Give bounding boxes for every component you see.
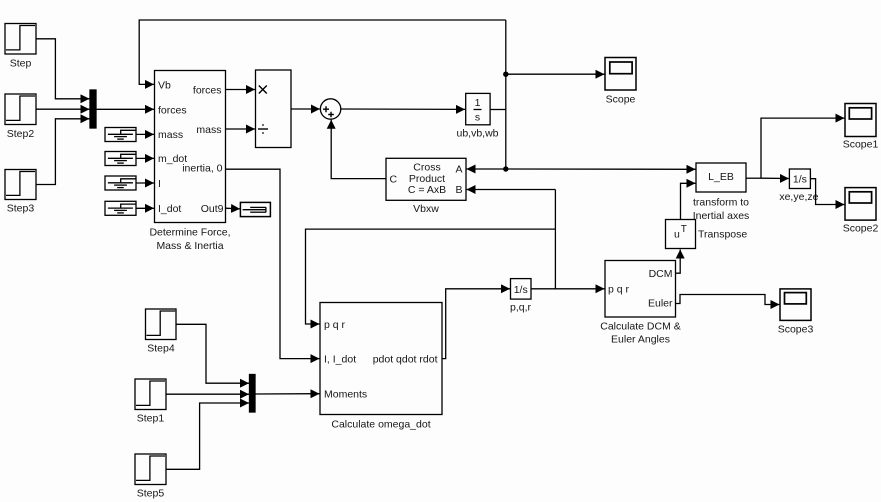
- wire Mux1 to forces input: [96, 108, 154, 110]
- wire 1/s output to DCM p q r: [531, 288, 605, 290]
- wire Mux2 to Moments: [255, 393, 320, 395]
- wire to Scope: [506, 73, 605, 75]
- svg-text:Scope3: Scope3: [778, 324, 814, 336]
- svg-text:transform to: transform to: [693, 197, 749, 209]
- wire 1/s to Scope2: [810, 179, 844, 205]
- svg-text:mass: mass: [158, 129, 183, 141]
- svg-text:C = AxB: C = AxB: [408, 184, 446, 196]
- wire L_EB to integrator xe: [761, 177, 789, 179]
- scope Scope1: [843, 104, 879, 151]
- svg-text:Determine Force,: Determine Force,: [149, 227, 230, 239]
- svg-text:mass: mass: [196, 124, 221, 136]
- wire Step3 to Mux: [36, 119, 90, 185]
- wire Step4 to Mux2: [176, 324, 249, 383]
- ground source for I: [105, 176, 136, 190]
- step source Step2: [5, 94, 36, 140]
- wire ground to m_dot: [136, 157, 154, 159]
- scope Scope3: [778, 289, 814, 336]
- svg-text:Step: Step: [10, 58, 32, 70]
- svg-text:Step3: Step3: [7, 203, 35, 215]
- svg-text:ub,vb,wb: ub,vb,wb: [456, 128, 498, 140]
- cross product block Vbxw: [386, 158, 466, 215]
- sum junction: [320, 99, 340, 119]
- integrator 1/s xe,ye,ze: [779, 169, 818, 203]
- svg-text:Out9: Out9: [201, 203, 224, 215]
- wire node to A input of Vbxw: [467, 168, 506, 170]
- svg-text:Euler: Euler: [648, 297, 673, 309]
- svg-text:forces: forces: [193, 84, 222, 96]
- svg-text:forces: forces: [158, 104, 187, 116]
- svg-text:T: T: [681, 224, 687, 235]
- integrator ub,vb,wb: [456, 93, 498, 139]
- svg-text:p,q,r: p,q,r: [510, 301, 532, 313]
- wire feedback vertical ub,vb,wb: [505, 20, 507, 169]
- wire integrator output to bus vertical: [490, 109, 506, 111]
- wire omega_dot output to 1/s: [442, 289, 510, 359]
- wire product to sum: [291, 108, 320, 110]
- svg-text:Transpose: Transpose: [698, 229, 747, 241]
- ground source for m_dot: [105, 152, 136, 166]
- step source Step3: [5, 170, 36, 215]
- scope Scope2: [843, 188, 879, 235]
- wire Step1 to Mux2: [166, 393, 249, 395]
- svg-text:Scope2: Scope2: [843, 223, 879, 235]
- subsystem L_EB: [693, 163, 750, 222]
- svg-text:1/s: 1/s: [793, 174, 807, 186]
- wire forces output to product: [226, 89, 256, 91]
- step source Step5: [135, 454, 166, 500]
- wire Step to Mux: [36, 39, 90, 99]
- wire inertia,0 to I,I_dot: [226, 169, 320, 358]
- svg-text:Step2: Step2: [7, 128, 35, 140]
- svg-text:xe,ye,ze: xe,ye,ze: [779, 191, 818, 203]
- step source Step4: [146, 309, 177, 355]
- wire Step2 to Mux: [36, 108, 90, 110]
- node junction to Scope: [503, 72, 508, 77]
- wire C output to sum bottom: [331, 120, 386, 179]
- svg-text:pdot qdot rdot: pdot qdot rdot: [373, 353, 438, 365]
- svg-text:1: 1: [475, 97, 481, 109]
- subsystem Calculate DCM & Euler Angles: [600, 261, 681, 346]
- wire branch to Scope1: [761, 118, 845, 178]
- wire sum to integrator: [341, 108, 465, 110]
- svg-text:Vb: Vb: [158, 79, 171, 91]
- svg-text:Inertial axes: Inertial axes: [693, 210, 750, 222]
- svg-text:C: C: [390, 173, 398, 185]
- integrator 1/s p,q,r: [510, 279, 532, 314]
- svg-text:s: s: [475, 112, 480, 124]
- step source Step: [5, 24, 36, 70]
- wire ground to I_dot: [136, 207, 154, 209]
- svg-text:I: I: [158, 178, 161, 190]
- svg-text:DCM: DCM: [649, 268, 673, 280]
- ground source for mass: [105, 128, 136, 142]
- svg-text:Scope: Scope: [606, 94, 636, 106]
- svg-text:Step5: Step5: [137, 488, 165, 500]
- ground source for I_dot: [105, 201, 136, 215]
- wire DCM output to Transpose: [676, 250, 681, 274]
- svg-text:Mass & Inertia: Mass & Inertia: [156, 240, 223, 252]
- svg-text:Product: Product: [409, 173, 445, 185]
- svg-text:Vbxw: Vbxw: [413, 203, 439, 215]
- svg-text:A: A: [455, 164, 462, 176]
- svg-text:Moments: Moments: [324, 388, 367, 400]
- svg-text:Step4: Step4: [147, 343, 175, 355]
- svg-text:u: u: [674, 229, 680, 241]
- product block (x over divide): [256, 70, 292, 148]
- wire node to L_EB input 1: [506, 168, 696, 170]
- svg-text:inertia, 0: inertia, 0: [182, 162, 222, 174]
- svg-text:L_EB: L_EB: [708, 171, 734, 183]
- svg-text:B: B: [455, 184, 462, 196]
- subsystem Determine Force, Mass & Inertia: [149, 71, 230, 253]
- mux Mux1: [90, 90, 96, 128]
- svg-text:1/s: 1/s: [514, 284, 528, 296]
- mux Mux2: [250, 375, 256, 413]
- wire Out9 to terminator: [226, 207, 241, 210]
- subsystem Calculate omega_dot: [320, 303, 442, 431]
- wire mass output to product: [226, 128, 256, 130]
- wire ground to mass: [136, 133, 154, 135]
- svg-text:Cross: Cross: [413, 162, 440, 174]
- transpose block uT: [666, 220, 748, 249]
- wire L_EB output: [746, 177, 761, 179]
- svg-text:Scope1: Scope1: [843, 138, 879, 150]
- scope Scope: [605, 58, 636, 106]
- wire p,q,r branch to omega_dot p q r input: [306, 229, 556, 324]
- wire B input from p,q,r branch: [467, 189, 556, 191]
- svg-text:Calculate omega_dot: Calculate omega_dot: [331, 418, 430, 430]
- svg-text:Calculate DCM &: Calculate DCM &: [600, 320, 681, 332]
- svg-text:Euler Angles: Euler Angles: [611, 333, 670, 345]
- wire Step5 to Mux2: [166, 403, 249, 469]
- wire Euler output to Scope3: [676, 295, 780, 305]
- wire feedback top to Vb: [139, 20, 506, 84]
- node junction A line: [503, 166, 508, 171]
- wire Transpose to L_EB input 2: [681, 183, 696, 219]
- svg-text:Step1: Step1: [137, 413, 165, 425]
- svg-text:I_dot: I_dot: [158, 203, 181, 215]
- svg-text:p q r: p q r: [608, 284, 630, 296]
- step source Step1: [135, 379, 166, 425]
- svg-text:I, I_dot: I, I_dot: [324, 353, 356, 365]
- wire ground to I: [136, 182, 154, 184]
- terminator sink for Out9: [240, 202, 270, 216]
- svg-text:p q r: p q r: [324, 319, 346, 331]
